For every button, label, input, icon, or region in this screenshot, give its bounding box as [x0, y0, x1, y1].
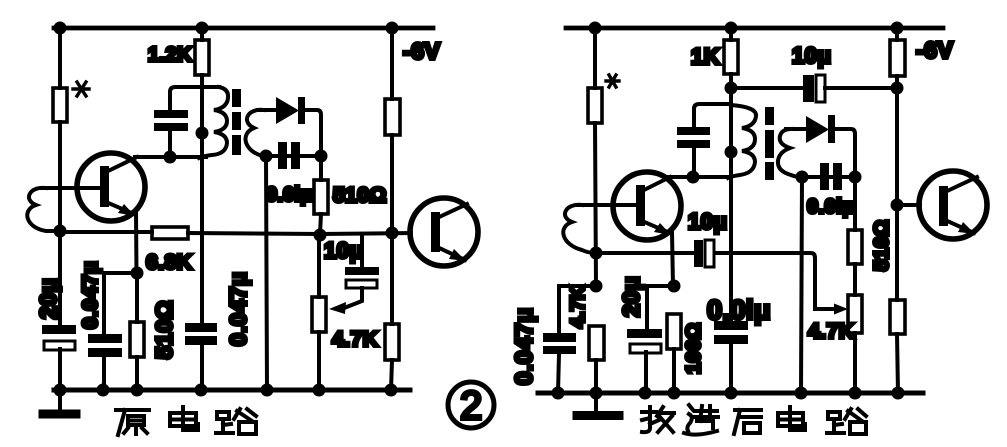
node diode loop left — [260, 150, 273, 163]
Q4 base bar — [939, 186, 948, 226]
Q3 emitter — [642, 221, 670, 233]
node rail pot R — [849, 387, 862, 400]
emitter coupling wire R — [596, 251, 694, 255]
node coil tap — [196, 127, 209, 140]
resistor bias lower — [385, 324, 399, 360]
base wire Q3 — [578, 203, 636, 207]
Q3 collector — [642, 177, 670, 191]
svg-text:510Ω: 510Ω — [871, 220, 893, 271]
resistor 1.2K — [195, 40, 209, 75]
asterisk label — [73, 82, 89, 96]
primary coil vertical R — [729, 104, 733, 323]
svg-text:10μ: 10μ — [792, 43, 831, 68]
wire 20u to rail — [58, 349, 62, 390]
wire node to Q2 base — [320, 233, 411, 234]
wire 4.7K to rail R — [594, 360, 598, 393]
caption right: lu2 — [827, 409, 866, 434]
wire 100ohm to rail — [672, 349, 676, 393]
caption left: dian — [170, 407, 198, 430]
wire 0.047u A to rail — [102, 357, 106, 390]
node top 1.2K — [196, 22, 209, 35]
node rail 20u R — [639, 387, 652, 400]
wire 1.2K top — [200, 28, 204, 40]
node rail 0.047u R — [552, 387, 565, 400]
wire 1K top — [729, 28, 733, 40]
wire 20u to rail R — [644, 352, 648, 393]
node collector/cap — [164, 151, 177, 164]
capacitor 20u R plate top — [627, 329, 662, 338]
caption right: hou — [734, 410, 761, 434]
capacitor 0.047u R plate top — [543, 333, 576, 342]
capacitor 0.047u B plate bottom — [185, 336, 217, 345]
pot 4.7K body — [312, 297, 326, 332]
base wire Q1 — [42, 186, 100, 190]
node rail diode R — [795, 387, 808, 400]
svg-text:100Ω: 100Ω — [683, 323, 705, 374]
wire emitter to 0.047u corner — [104, 273, 137, 334]
diode loop bottom wire — [266, 154, 321, 158]
svg-text:0.0lμ: 0.0lμ — [807, 196, 855, 218]
secondary top wire — [258, 108, 277, 112]
node collector/cap R — [687, 171, 700, 184]
capacitor 0.01u A plates — [278, 142, 287, 169]
wire left branch lower — [58, 122, 62, 329]
transistor Q1 circle — [77, 153, 145, 221]
node top 1K — [725, 22, 738, 35]
resistor 510ohm R — [848, 230, 862, 264]
svg-text:4.7K: 4.7K — [808, 320, 854, 343]
svg-text:510Ω: 510Ω — [151, 300, 177, 359]
Q2 base bar — [431, 212, 440, 252]
wire diode to corner — [305, 110, 321, 156]
node top -6V R — [891, 22, 904, 35]
node coil tap R — [725, 146, 738, 159]
wire 6.8K to node — [188, 233, 320, 234]
wire -6V branch R upper — [895, 28, 899, 40]
node squiggle bottom R — [590, 247, 603, 260]
wire base bias 6.8K row — [60, 230, 152, 234]
capacitor 10u plate bottom — [346, 280, 377, 288]
svg-text:20μ: 20μ — [618, 276, 644, 317]
capacitor 10u mid plates — [694, 240, 703, 267]
svg-text:10μ: 10μ — [324, 238, 363, 263]
capacitor 20u plate bottom — [44, 341, 75, 350]
secondary top wire R — [786, 127, 807, 131]
resistor -6V R lower — [890, 300, 905, 334]
node base row left — [314, 229, 327, 242]
wire 0.047u B to rail — [200, 345, 204, 390]
input coil squiggle R — [563, 205, 596, 253]
node rail 0.01u mid — [725, 387, 738, 400]
node 10u feed — [725, 82, 738, 95]
Q4 emitter — [945, 220, 974, 233]
wire loop right to 510 R — [853, 177, 857, 230]
node top -6V — [386, 22, 399, 35]
diode D1 — [276, 97, 299, 124]
node rail 0.01u A — [261, 384, 274, 397]
node input coil bottom — [54, 225, 67, 238]
wire -6V branch upper — [390, 28, 394, 99]
transformer core dashes R — [765, 107, 774, 180]
node rail 510 — [131, 384, 144, 397]
svg-text:0.047μ: 0.047μ — [225, 271, 251, 346]
resistor R* — [53, 88, 67, 122]
wire emitter to 510 resistor — [135, 273, 139, 322]
node rail pot — [313, 384, 326, 397]
svg-text:1.2K: 1.2K — [148, 44, 192, 66]
Q4 collector — [945, 177, 977, 192]
wire 1K bottom — [729, 74, 733, 106]
node top-left R — [589, 22, 602, 35]
svg-text:20μ: 20μ — [35, 278, 61, 319]
capacitor 0.01u mid plates — [714, 321, 748, 330]
tank capacitor plate top — [154, 110, 188, 118]
resistor 6.8K — [152, 227, 188, 239]
node diode loop right R — [849, 171, 862, 184]
pot 4.7K column — [317, 235, 321, 297]
resistor 4.7K R body — [589, 326, 604, 360]
diode loop bottom wire R — [802, 175, 855, 179]
Q1 emitter — [106, 202, 134, 214]
node rail 0.047u B — [195, 384, 208, 397]
node rail 0.047u — [97, 384, 110, 397]
bottom ground rail R — [538, 391, 923, 396]
asterisk label R — [606, 75, 619, 87]
Q1 base bar — [100, 166, 109, 207]
node rail main R — [590, 387, 603, 400]
tank top wire — [170, 87, 219, 113]
top supply rail — [54, 26, 433, 31]
tank cap R lower stem — [692, 148, 696, 177]
svg-text:4.7K: 4.7K — [332, 328, 378, 351]
transformer core dashes — [232, 89, 241, 155]
collector wire to coil — [135, 155, 206, 159]
wire 510 to rail — [135, 357, 139, 390]
top supply rail R — [566, 26, 943, 31]
caption left: lu — [216, 409, 256, 434]
wire loop left down to rail R — [801, 177, 802, 393]
transistor Q2 circle — [410, 198, 478, 266]
caption left: yuan — [116, 410, 149, 435]
diode D2 bar — [828, 115, 835, 143]
Q3 base bar — [636, 185, 645, 226]
ground — [58, 390, 62, 411]
svg-text:-6V: -6V — [916, 37, 953, 63]
svg-text:2: 2 — [460, 384, 482, 428]
node rail -6V — [385, 384, 398, 397]
wire to 10u top — [731, 86, 804, 90]
node diode loop left R — [796, 171, 809, 184]
Q4 emitter arrow — [958, 222, 975, 234]
resistor R* R — [588, 88, 602, 123]
wire -6V branch bottom — [391, 360, 392, 390]
diode D1 bar — [298, 97, 305, 124]
transistor Q3 circle — [613, 172, 681, 240]
tank capacitor R plate top — [677, 127, 710, 135]
wire left branch mid R — [595, 123, 596, 286]
node diode loop right — [315, 150, 328, 163]
svg-text:0.047μ: 0.047μ — [511, 307, 538, 385]
wire -6V branch middle — [390, 135, 394, 324]
svg-text:1K: 1K — [691, 44, 720, 69]
wire Q3 emitter down — [672, 232, 673, 286]
svg-text:0.0lμ: 0.0lμ — [266, 184, 313, 206]
node rail -6V R — [892, 387, 905, 400]
Q2 collector — [437, 204, 467, 218]
svg-text:4.7K: 4.7K — [568, 286, 589, 328]
wire 1.2K bottom — [200, 75, 204, 89]
capacitor 10u plate top — [345, 267, 379, 275]
svg-text:-6V: -6V — [403, 38, 440, 64]
wire pot to rail — [317, 332, 321, 390]
resistor 1K — [724, 40, 738, 74]
svg-text:0.0lμ: 0.0lμ — [707, 295, 771, 325]
transistor Q4 circle — [919, 171, 987, 239]
wire loop left down to rail — [266, 156, 267, 390]
svg-text:10μ: 10μ — [688, 209, 727, 234]
resistor 100ohm — [667, 314, 681, 349]
base wire Q4 — [897, 203, 920, 207]
node -6V 10u — [891, 82, 904, 95]
wire Q1 emitter down — [134, 213, 139, 273]
wire 510 R to pot — [853, 264, 857, 295]
wiper arrowhead R — [834, 304, 848, 315]
Q1 emitter arrow — [118, 204, 135, 216]
node rail left — [54, 384, 67, 397]
wire left branch upper — [58, 28, 62, 88]
resistor 510ohm A — [130, 322, 144, 357]
Q3 emitter arrow — [654, 223, 671, 235]
caption right: gai — [642, 407, 674, 432]
svg-text:0.047μ: 0.047μ — [79, 261, 102, 329]
secondary coil — [245, 110, 264, 156]
primary coil bumps R — [728, 105, 756, 178]
wire 0.047u R arm — [559, 286, 596, 333]
wire emitter to 20u corner — [647, 286, 674, 331]
svg-text:510Ω: 510Ω — [333, 184, 387, 207]
wire -6V branch R mid — [895, 76, 899, 300]
caption right: jin — [684, 405, 718, 435]
bottom ground rail — [54, 388, 410, 393]
ground R — [594, 393, 598, 412]
wire 510 B to node — [320, 214, 321, 234]
resistor -6V R upper — [890, 40, 905, 76]
resistor bias upper — [385, 99, 400, 135]
svg-text:6.8K: 6.8K — [146, 251, 192, 274]
capacitor 0.047u R plate bottom — [543, 346, 576, 354]
input coil squiggle — [27, 188, 60, 231]
tank top wire R — [694, 104, 731, 129]
tank cap lower stem — [168, 131, 172, 157]
figure number circle — [448, 382, 494, 428]
resistor 510ohm B — [314, 180, 328, 214]
wire loop right to 510 B — [319, 156, 323, 180]
capacitor 0.047u A plate top — [88, 334, 122, 343]
wiper arrow wire R — [815, 307, 838, 311]
wire 0.047u R to rail — [558, 354, 559, 393]
collector wire to coil R — [668, 175, 731, 179]
capacitor 0.047u B plate top — [185, 323, 217, 332]
caption right: dian2 — [778, 407, 805, 430]
diode D2 — [806, 116, 829, 143]
wiper arrow wire — [344, 288, 362, 308]
capacitor 10u top plates — [803, 75, 814, 102]
tank capacitor plate bottom — [154, 123, 188, 131]
Q1 collector — [106, 157, 137, 172]
capacitor 10u stem — [360, 234, 364, 268]
capacitor 0.01u R plates — [820, 163, 829, 190]
wire left branch upper R — [593, 28, 597, 88]
wire 10u top to -6V node — [825, 86, 897, 90]
node Q4 base — [891, 199, 904, 212]
node top-left — [54, 22, 67, 35]
wire pot R to rail — [853, 333, 857, 393]
Q2 emitter arrow — [449, 249, 466, 261]
primary coil vertical — [200, 87, 204, 325]
capacitor 0.047u A plate bottom — [88, 348, 122, 357]
node emitter junction R — [668, 280, 681, 293]
wire 10u mid to corner — [716, 253, 815, 309]
node 0.047u R — [590, 280, 603, 293]
capacitor 20u plate top — [42, 325, 76, 334]
tank capacitor R plate bottom — [677, 140, 710, 148]
wire -6V branch R bottom — [897, 334, 898, 393]
secondary coil R — [778, 129, 802, 177]
wire diode to corner R — [835, 129, 855, 177]
node -6V column — [386, 227, 399, 240]
wire 0.01u mid to rail — [729, 344, 733, 393]
primary coil bumps — [199, 87, 228, 158]
node emitter junction — [131, 267, 144, 280]
capacitor 20u R plate bottom — [630, 344, 661, 353]
node rail 100ohm — [668, 387, 681, 400]
pot 4.7K R body — [848, 295, 862, 333]
Q2 emitter — [437, 247, 465, 260]
wiper arrowhead — [329, 302, 346, 314]
